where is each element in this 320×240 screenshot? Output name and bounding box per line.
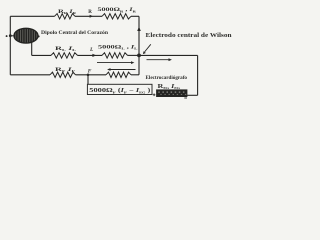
svg-text:5000ΩR , IR: 5000ΩR , IR bbox=[98, 7, 137, 13]
svg-text:L: L bbox=[89, 47, 94, 53]
svg-text:Electrocardiógrafo: Electrocardiógrafo bbox=[146, 75, 188, 81]
svg-text:R: R bbox=[88, 10, 92, 15]
svg-text:F: F bbox=[88, 69, 92, 75]
svg-text:5000ΩL , IL: 5000ΩL , IL bbox=[98, 45, 139, 51]
svg-text:Electrodo central de Wilson: Electrodo central de Wilson bbox=[146, 33, 233, 39]
svg-text:Dipolo Central del Corazón: Dipolo Central del Corazón bbox=[41, 31, 108, 36]
